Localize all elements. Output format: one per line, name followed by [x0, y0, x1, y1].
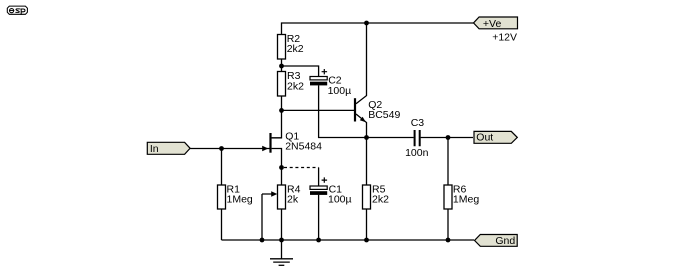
- svg-text:Gnd: Gnd: [495, 235, 515, 247]
- node: R2-R3 junction: [279, 64, 284, 69]
- wire R6 vertical: [447, 138, 449, 241]
- wire Q2 collector: [356, 23, 367, 104]
- node: R6-output: [446, 135, 451, 140]
- node: R6-rail: [446, 238, 451, 243]
- ESP logo: [7, 6, 27, 15]
- svg-text:100µ: 100µ: [328, 194, 352, 206]
- svg-text:2k2: 2k2: [372, 194, 389, 206]
- wire R1 vertical: [221, 149, 223, 241]
- wire R4 bottom to rail: [281, 209, 283, 240]
- resistor R1: [218, 183, 253, 209]
- svg-text:2k2: 2k2: [287, 43, 304, 55]
- bottom rail wire: [222, 239, 475, 241]
- resistor R2: [278, 33, 304, 59]
- svg-text:2k: 2k: [287, 194, 299, 206]
- svg-text:In: In: [150, 143, 159, 155]
- wire C2 bottom to output node: [319, 85, 414, 137]
- wire node to Q2 base: [282, 109, 355, 111]
- wire R3 bottom to Q1 drain: [272, 96, 282, 138]
- svg-text:100µ: 100µ: [328, 85, 352, 97]
- tag Gnd: [475, 235, 518, 248]
- transistor Q2: [355, 98, 400, 122]
- resistor R5: [363, 183, 390, 209]
- tag Out: [474, 131, 517, 143]
- wire C1 vertical: [318, 168, 320, 241]
- node: R3-drain-base: [279, 108, 284, 113]
- wire output right of C3 to Out tag: [421, 137, 473, 139]
- top rail wire: [282, 23, 474, 35]
- svg-text:Out: Out: [476, 132, 493, 144]
- node: R5-rail: [364, 238, 369, 243]
- node: C1-rail: [316, 238, 321, 243]
- wire Q2 emitter: [356, 114, 367, 138]
- node: R4-ground-rail: [279, 238, 284, 243]
- node: collector-top rail: [364, 21, 369, 26]
- svg-text:1Meg: 1Meg: [453, 194, 479, 206]
- node: In-R1-gate: [219, 146, 224, 151]
- svg-text:1Meg: 1Meg: [227, 194, 253, 206]
- svg-text:100n: 100n: [405, 147, 429, 159]
- capacitor C3: [405, 117, 429, 159]
- wire R4 wiper return: [262, 194, 272, 240]
- transistor Q1: [262, 131, 322, 153]
- svg-text:+Ve: +Ve: [483, 18, 502, 30]
- dashed wire source node to C1: [284, 167, 319, 169]
- wire R2-R3 junction to C2 top: [282, 59, 319, 77]
- capacitor C2: [310, 69, 351, 97]
- wire R5 vertical: [366, 138, 368, 241]
- svg-text:C3: C3: [411, 117, 425, 129]
- wire In tag to Q1 gate: [190, 148, 269, 150]
- resistor R3: [278, 70, 305, 96]
- svg-text:2k2: 2k2: [287, 80, 304, 92]
- wire Q1 source down to R4: [272, 149, 282, 186]
- tag +Ve: [474, 17, 518, 30]
- tag In: [147, 142, 190, 155]
- trimpot R4: [271, 183, 300, 209]
- node: wiper-rail: [260, 238, 265, 243]
- svg-text:+12V: +12V: [492, 32, 517, 44]
- resistor R6: [444, 183, 479, 209]
- node: emitter-output: [364, 135, 369, 140]
- node: source-R4: [279, 165, 284, 170]
- svg-text:2N5484: 2N5484: [285, 141, 322, 153]
- capacitor C1: [310, 177, 352, 205]
- svg-text:BC549: BC549: [368, 109, 400, 121]
- ground: [270, 240, 293, 265]
